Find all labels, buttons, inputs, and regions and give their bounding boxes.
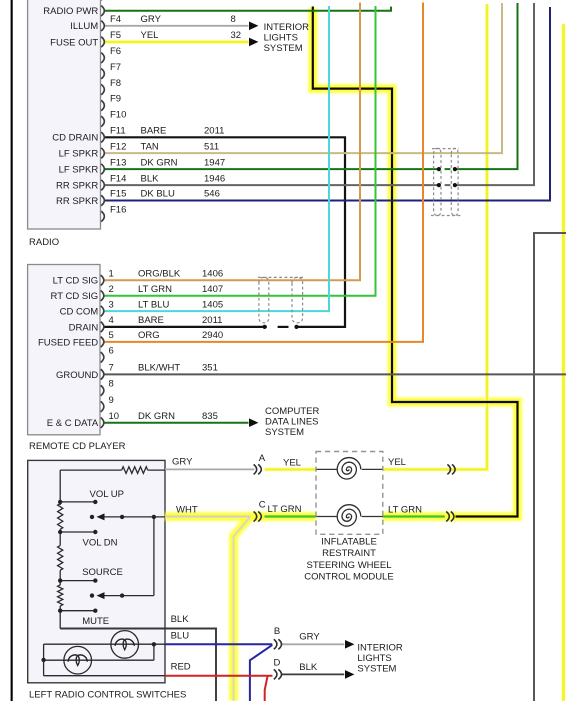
svg-text:F15: F15 (110, 189, 126, 200)
svg-text:F11: F11 (110, 126, 126, 137)
svg-text:1: 1 (109, 269, 114, 280)
svg-text:DK GRN: DK GRN (141, 157, 178, 168)
svg-text:INFLATABLE: INFLATABLE (321, 536, 377, 547)
svg-text:BLK: BLK (299, 662, 318, 673)
svg-text:RR SPKR: RR SPKR (56, 196, 98, 207)
svg-text:SYSTEM: SYSTEM (357, 664, 396, 675)
svg-text:CD COM: CD COM (60, 307, 99, 318)
svg-text:F16: F16 (110, 205, 126, 216)
svg-text:F8: F8 (110, 78, 121, 89)
svg-text:RADIO: RADIO (29, 237, 59, 248)
svg-text:B: B (274, 626, 280, 637)
svg-text:BLK/WHT: BLK/WHT (138, 363, 180, 374)
svg-text:FUSE OUT: FUSE OUT (50, 37, 98, 48)
svg-text:351: 351 (202, 363, 218, 374)
svg-text:MUTE: MUTE (82, 616, 109, 627)
svg-text:4: 4 (109, 315, 114, 326)
svg-text:546: 546 (204, 189, 220, 200)
svg-text:F9: F9 (110, 94, 121, 105)
svg-text:F10: F10 (110, 110, 126, 121)
svg-text:F12: F12 (110, 141, 126, 152)
svg-text:LIGHTS: LIGHTS (264, 32, 298, 43)
svg-text:835: 835 (202, 411, 218, 422)
svg-text:CD DRAIN: CD DRAIN (52, 133, 98, 144)
svg-text:2940: 2940 (202, 330, 223, 341)
svg-text:VOL UP: VOL UP (90, 489, 125, 500)
svg-text:FUSED FEED: FUSED FEED (38, 337, 98, 348)
svg-text:COMPUTER: COMPUTER (265, 406, 320, 417)
svg-text:LF SPKR: LF SPKR (59, 149, 99, 160)
svg-text:1947: 1947 (204, 157, 225, 168)
svg-text:7: 7 (109, 363, 114, 374)
svg-text:32: 32 (231, 30, 242, 41)
svg-text:9: 9 (109, 395, 114, 406)
svg-text:REMOTE CD PLAYER: REMOTE CD PLAYER (29, 441, 126, 452)
svg-text:WHT: WHT (176, 505, 198, 516)
svg-text:3: 3 (109, 299, 114, 310)
svg-text:1407: 1407 (202, 284, 223, 295)
svg-text:10: 10 (109, 411, 120, 422)
svg-text:511: 511 (204, 141, 219, 152)
svg-text:LF SPKR: LF SPKR (59, 165, 99, 176)
svg-text:BLK: BLK (141, 173, 160, 184)
svg-text:STEERING WHEEL: STEERING WHEEL (307, 560, 392, 571)
svg-text:TAN: TAN (141, 141, 159, 152)
svg-text:GRY: GRY (141, 14, 162, 25)
svg-text:1406: 1406 (202, 269, 223, 280)
svg-text:VOL DN: VOL DN (83, 538, 118, 549)
svg-text:LT GRN: LT GRN (268, 504, 302, 515)
svg-text:8: 8 (231, 14, 236, 25)
svg-text:SYSTEM: SYSTEM (265, 427, 304, 438)
svg-text:GRY: GRY (299, 632, 320, 643)
svg-text:2011: 2011 (204, 126, 224, 137)
svg-text:YEL: YEL (283, 457, 301, 468)
svg-text:F6: F6 (110, 46, 121, 57)
svg-text:2011: 2011 (202, 315, 222, 326)
svg-text:RESTRAINT: RESTRAINT (322, 548, 376, 559)
svg-text:F14: F14 (110, 173, 126, 184)
svg-text:LT CD SIG: LT CD SIG (53, 276, 99, 287)
svg-text:2: 2 (109, 284, 114, 295)
svg-text:F7: F7 (110, 62, 121, 73)
svg-text:ORG: ORG (138, 330, 160, 341)
svg-text:LT GRN: LT GRN (138, 284, 172, 295)
svg-text:ILLUM: ILLUM (70, 21, 98, 32)
svg-text:GROUND: GROUND (56, 370, 98, 381)
svg-text:INTERIOR: INTERIOR (264, 22, 310, 33)
svg-text:E & C DATA: E & C DATA (47, 418, 99, 429)
svg-text:SYSTEM: SYSTEM (264, 43, 303, 54)
svg-text:BLK: BLK (171, 614, 190, 625)
svg-text:BLU: BLU (171, 630, 190, 641)
svg-text:YEL: YEL (388, 457, 406, 468)
svg-text:RR SPKR: RR SPKR (56, 181, 98, 192)
svg-text:F4: F4 (110, 14, 121, 25)
svg-text:INTERIOR: INTERIOR (357, 642, 403, 653)
svg-text:C: C (259, 500, 266, 511)
svg-text:DRAIN: DRAIN (69, 322, 99, 333)
svg-text:BARE: BARE (141, 126, 167, 137)
svg-text:GRY: GRY (172, 457, 193, 468)
svg-text:LIGHTS: LIGHTS (357, 653, 391, 664)
svg-text:SOURCE: SOURCE (82, 567, 123, 578)
svg-text:1946: 1946 (204, 173, 225, 184)
svg-text:ORG/BLK: ORG/BLK (138, 269, 181, 280)
svg-text:YEL: YEL (141, 30, 159, 41)
svg-text:CONTROL MODULE: CONTROL MODULE (304, 572, 393, 583)
svg-text:A: A (259, 453, 266, 464)
svg-text:F13: F13 (110, 157, 126, 168)
svg-text:RT CD SIG: RT CD SIG (51, 291, 99, 302)
svg-text:DK BLU: DK BLU (141, 189, 175, 200)
svg-text:DATA LINES: DATA LINES (265, 416, 319, 427)
svg-text:DK GRN: DK GRN (138, 411, 175, 422)
svg-text:BARE: BARE (138, 315, 164, 326)
svg-text:5: 5 (109, 330, 114, 341)
svg-text:LEFT RADIO CONTROL SWITCHES: LEFT RADIO CONTROL SWITCHES (29, 689, 186, 700)
svg-text:D: D (274, 658, 281, 669)
svg-text:F5: F5 (110, 30, 121, 41)
svg-text:1405: 1405 (202, 299, 223, 310)
svg-text:6: 6 (109, 346, 114, 357)
svg-text:LT GRN: LT GRN (388, 505, 422, 516)
svg-text:8: 8 (109, 379, 114, 390)
svg-text:RED: RED (171, 662, 191, 673)
svg-text:RADIO PWR: RADIO PWR (43, 6, 98, 17)
svg-text:LT BLU: LT BLU (138, 299, 169, 310)
